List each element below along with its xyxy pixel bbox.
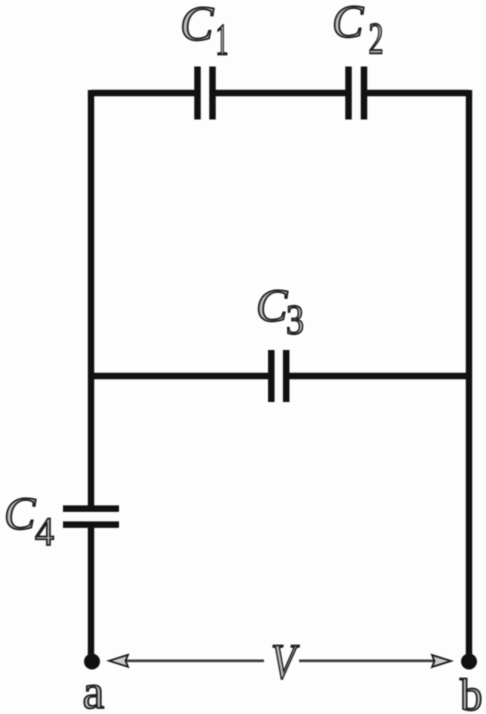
svg-text:3: 3 [286, 298, 304, 344]
svg-text:4: 4 [35, 509, 54, 554]
svg-text:a: a [83, 664, 105, 714]
svg-text:b: b [460, 670, 483, 714]
svg-text:V: V [271, 634, 299, 689]
svg-text:C: C [332, 0, 364, 48]
svg-text:C: C [180, 0, 214, 51]
svg-text:2: 2 [369, 14, 384, 63]
svg-text:C: C [256, 280, 288, 332]
svg-text:C: C [4, 488, 36, 540]
svg-text:1: 1 [216, 15, 229, 64]
